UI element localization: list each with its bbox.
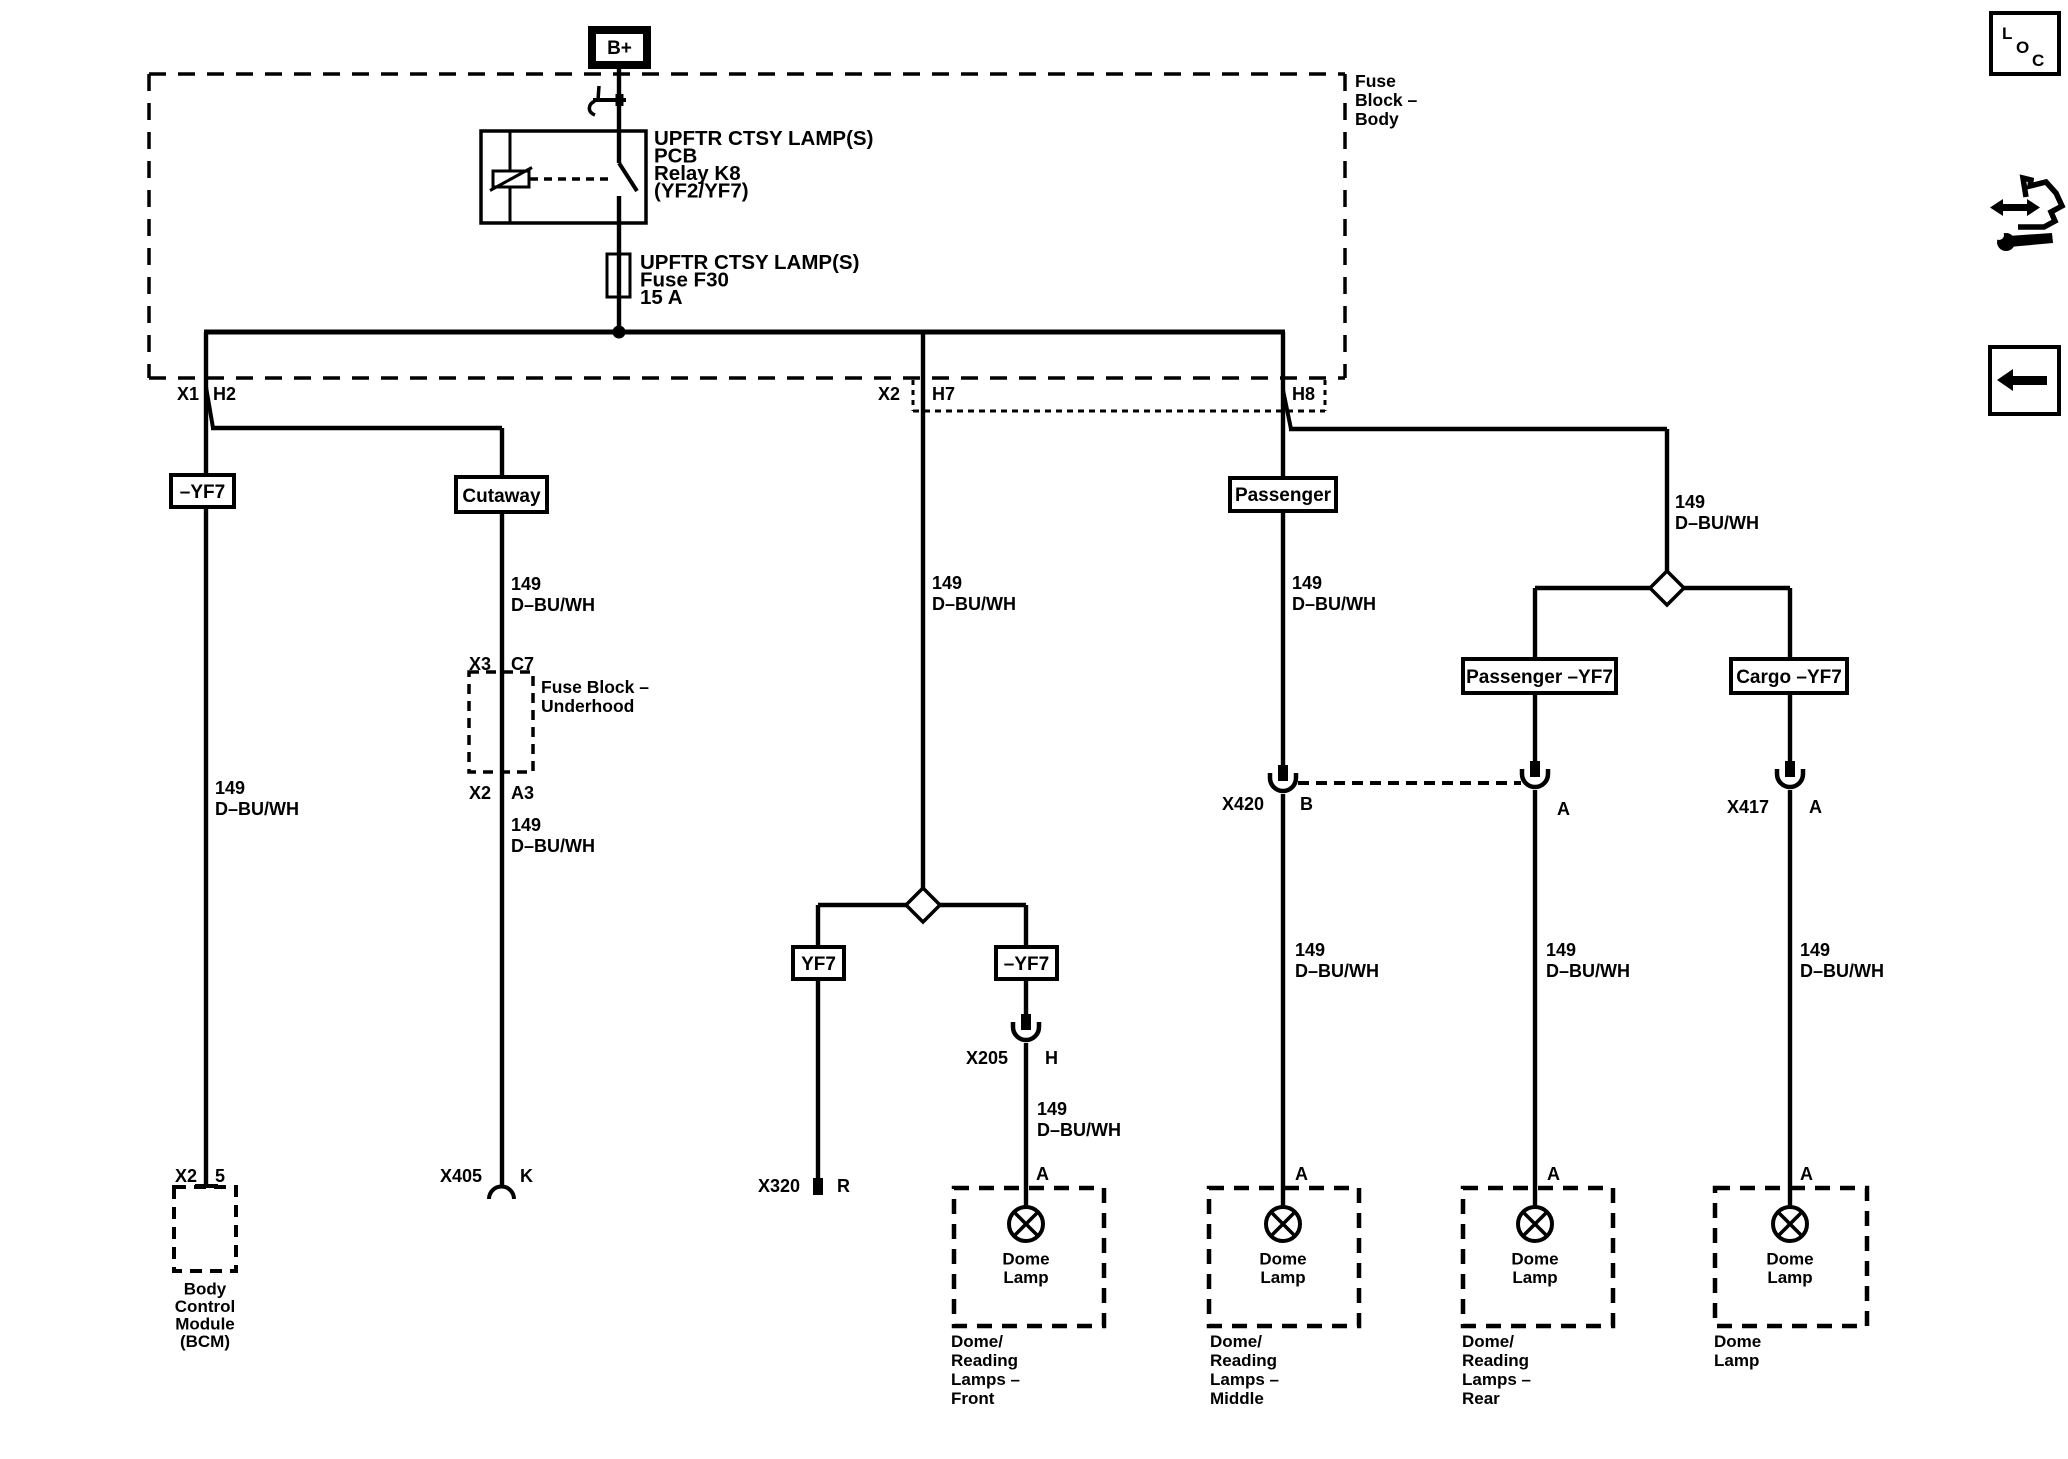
svg-text:H8: H8 [1292,384,1315,404]
svg-text:Front: Front [951,1389,995,1408]
svg-text:Module: Module [175,1315,235,1334]
svg-text:D–BU/WH: D–BU/WH [1295,961,1379,981]
svg-text:X2: X2 [878,384,900,404]
svg-text:Cutaway: Cutaway [462,486,541,507]
svg-text:X3: X3 [469,654,491,674]
svg-text:D–BU/WH: D–BU/WH [1675,513,1759,533]
svg-text:O: O [2016,38,2029,57]
svg-text:D–BU/WH: D–BU/WH [932,594,1016,614]
svg-text:A3: A3 [511,783,534,803]
svg-text:Dome/: Dome/ [1462,1332,1514,1351]
svg-text:149: 149 [1292,573,1322,593]
svg-text:Lamps –: Lamps – [1462,1370,1531,1389]
svg-text:Lamp: Lamp [1767,1268,1812,1287]
svg-text:Dome: Dome [1511,1250,1558,1269]
svg-text:B+: B+ [607,38,632,59]
svg-text:Dome: Dome [1766,1250,1813,1269]
svg-text:Middle: Middle [1210,1389,1264,1408]
svg-text:D–BU/WH: D–BU/WH [1292,594,1376,614]
svg-text:Body: Body [1355,109,1399,129]
svg-text:X417: X417 [1727,797,1769,817]
svg-text:X1: X1 [177,384,199,404]
svg-text:Dome/: Dome/ [951,1332,1003,1351]
svg-text:Lamps –: Lamps – [951,1370,1020,1389]
svg-text:Reading: Reading [951,1351,1018,1370]
svg-text:YF7: YF7 [801,954,836,975]
svg-text:X405: X405 [440,1166,482,1186]
svg-text:Passenger –YF7: Passenger –YF7 [1466,667,1613,688]
svg-text:A: A [1036,1164,1049,1184]
svg-text:Fuse Block –: Fuse Block – [541,677,649,697]
svg-text:D–BU/WH: D–BU/WH [1037,1120,1121,1140]
svg-text:D–BU/WH: D–BU/WH [511,595,595,615]
svg-text:149: 149 [1037,1099,1067,1119]
svg-text:A: A [1557,799,1570,819]
svg-text:Rear: Rear [1462,1389,1500,1408]
svg-text:15 A: 15 A [640,286,683,309]
svg-text:Reading: Reading [1462,1351,1529,1370]
svg-text:L: L [2002,24,2012,43]
svg-text:149: 149 [1546,940,1576,960]
svg-text:X205: X205 [966,1048,1008,1068]
svg-text:149: 149 [511,815,541,835]
svg-text:D–BU/WH: D–BU/WH [1546,961,1630,981]
svg-text:D–BU/WH: D–BU/WH [511,836,595,856]
svg-text:X420: X420 [1222,794,1264,814]
svg-text:Lamps –: Lamps – [1210,1370,1279,1389]
svg-text:–YF7: –YF7 [180,482,225,503]
svg-text:Reading: Reading [1210,1351,1277,1370]
svg-text:Block –: Block – [1355,90,1418,110]
svg-text:C: C [2032,51,2044,70]
svg-text:H: H [1045,1048,1058,1068]
svg-text:149: 149 [1295,940,1325,960]
svg-text:A: A [1800,1164,1813,1184]
svg-text:Dome: Dome [1002,1250,1049,1269]
svg-text:Dome: Dome [1259,1250,1306,1269]
svg-text:D–BU/WH: D–BU/WH [1800,961,1884,981]
svg-text:149: 149 [511,574,541,594]
svg-text:A: A [1809,797,1822,817]
svg-text:Fuse: Fuse [1355,71,1396,91]
svg-text:H2: H2 [213,384,236,404]
svg-text:X2: X2 [175,1166,197,1186]
svg-text:Lamp: Lamp [1714,1351,1759,1370]
svg-text:D–BU/WH: D–BU/WH [215,799,299,819]
svg-text:149: 149 [1800,940,1830,960]
svg-text:5: 5 [215,1166,225,1186]
svg-text:Lamp: Lamp [1003,1268,1048,1287]
svg-text:H7: H7 [932,384,955,404]
svg-text:K: K [520,1166,533,1186]
svg-text:X2: X2 [469,783,491,803]
svg-text:Underhood: Underhood [541,696,634,716]
svg-text:Lamp: Lamp [1512,1268,1557,1287]
svg-text:B: B [1300,794,1313,814]
svg-text:Lamp: Lamp [1260,1268,1305,1287]
svg-text:–YF7: –YF7 [1004,954,1049,975]
svg-text:149: 149 [215,778,245,798]
svg-text:Control: Control [175,1297,235,1316]
svg-text:A: A [1295,1164,1308,1184]
svg-text:149: 149 [1675,492,1705,512]
svg-text:X320: X320 [758,1176,800,1196]
svg-text:(YF2/YF7): (YF2/YF7) [654,180,749,203]
svg-text:Cargo –YF7: Cargo –YF7 [1736,667,1842,688]
svg-text:Dome/: Dome/ [1210,1332,1262,1351]
svg-text:149: 149 [932,573,962,593]
svg-text:Dome: Dome [1714,1332,1761,1351]
svg-text:A: A [1547,1164,1560,1184]
svg-text:(BCM): (BCM) [180,1332,230,1351]
svg-text:C7: C7 [511,654,534,674]
svg-text:Passenger: Passenger [1235,485,1332,506]
svg-text:Body: Body [184,1280,227,1299]
svg-text:R: R [837,1176,850,1196]
